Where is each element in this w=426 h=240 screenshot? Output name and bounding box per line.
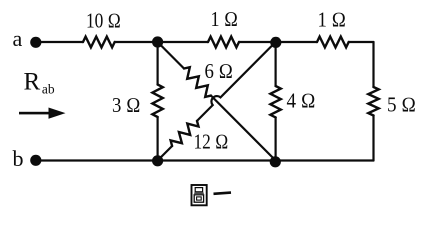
terminal b node dot bbox=[30, 155, 41, 166]
wire top rail: node T2 to resistor 1Ω (right) bbox=[276, 41, 317, 43]
svg-text:4 Ω: 4 Ω bbox=[287, 89, 316, 113]
svg-text:5 Ω: 5 Ω bbox=[387, 92, 416, 116]
resistor 3Ω bbox=[152, 85, 162, 118]
resistor 10Ω bbox=[83, 37, 115, 48]
svg-text:ab: ab bbox=[42, 82, 55, 97]
svg-text:12 Ω: 12 Ω bbox=[194, 130, 229, 154]
wire top rail: resistor 1Ω (right) to top-right corner bbox=[349, 41, 374, 43]
svg-text:a: a bbox=[13, 26, 23, 51]
wire left branch lower: resistor 3Ω to node B1 bbox=[157, 117, 159, 161]
caption 一 (one) stroke bbox=[214, 193, 232, 194]
resistor 6Ω bbox=[184, 67, 211, 97]
wire diagonal D1 upper: node T1 to resistor 6Ω bbox=[158, 42, 184, 69]
resistor 1Ω (top right) bbox=[317, 37, 349, 48]
resistor 1Ω (top middle) bbox=[208, 37, 239, 48]
resistor 4Ω bbox=[270, 86, 280, 117]
arrow for Rab bbox=[19, 112, 50, 115]
svg-text:b: b bbox=[13, 146, 24, 171]
wire top rail: node T1 to resistor 1Ω (middle) bbox=[158, 41, 208, 43]
wire top rail: resistor 10Ω to node T1 bbox=[115, 41, 158, 43]
wire diagonal D2 lower: node B1 to resistor 12Ω bbox=[158, 146, 173, 161]
junction node B2 bbox=[270, 156, 281, 167]
wire middle branch lower: resistor 4Ω to node B2 bbox=[275, 117, 277, 160]
wire right branch upper: corner down to resistor 5Ω bbox=[372, 42, 374, 87]
terminal a node dot bbox=[30, 37, 41, 48]
svg-text:R: R bbox=[24, 68, 41, 95]
junction node T2 bbox=[270, 37, 281, 48]
svg-text:6 Ω: 6 Ω bbox=[205, 59, 234, 83]
wire left branch upper: node T1 down to resistor 3Ω bbox=[157, 42, 159, 85]
svg-text:10 Ω: 10 Ω bbox=[86, 9, 121, 33]
wire bottom rail: terminal b to bottom-right corner bbox=[36, 159, 374, 161]
wire top rail: terminal a to resistor 10Ω bbox=[36, 41, 83, 43]
svg-text:3 Ω: 3 Ω bbox=[112, 93, 141, 117]
resistor 5Ω bbox=[368, 87, 378, 116]
wire right branch lower: resistor 5Ω to bottom-right corner bbox=[372, 116, 374, 161]
junction node B1 bbox=[152, 155, 163, 166]
wire diagonal D1 lower: resistor 6Ω to node B2 bbox=[211, 96, 276, 161]
resistor 12Ω bbox=[171, 121, 199, 146]
svg-text:1 Ω: 1 Ω bbox=[211, 7, 239, 31]
junction node T1 bbox=[152, 36, 163, 47]
wire top rail: resistor 1Ω (middle) to node T2 bbox=[239, 41, 276, 43]
wire diagonal D2 with hop over D1: resistor 12Ω to node T2 bbox=[197, 42, 276, 121]
svg-text:1 Ω: 1 Ω bbox=[318, 8, 347, 32]
wire middle branch upper: node T2 down to resistor 4Ω bbox=[275, 42, 277, 86]
caption 圖 (figure) character bbox=[192, 185, 207, 205]
